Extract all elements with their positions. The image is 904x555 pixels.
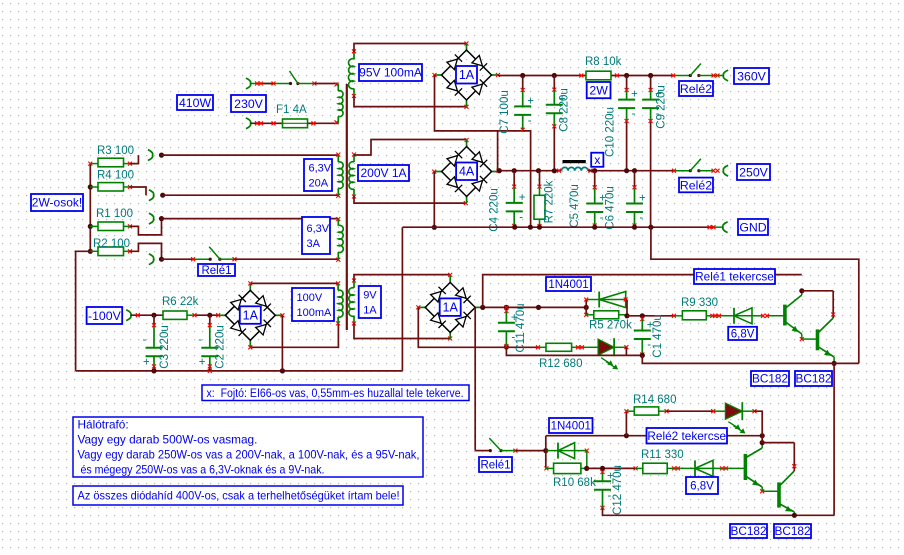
capacitor C5 470u [594,171,596,188]
svg-text:BC182: BC182 [752,372,788,386]
wire 200V top to bridge [354,140,467,156]
wire 6.3V3A bottom line [235,258,339,260]
capacitor C4 220u [513,171,515,187]
resistor R8 10k [586,71,611,80]
svg-text:Relé1 tekercse: Relé1 tekercse [695,270,774,284]
svg-text:C1 470u: C1 470u [652,314,664,357]
transformer winding 95V 100mA [353,52,355,59]
resistor R4 100 [90,186,98,188]
svg-text:BC182: BC182 [774,524,810,538]
wire zener to Q1 base [767,315,785,317]
wire fuse to primary [308,122,339,124]
svg-text:250V: 250V [739,165,769,179]
svg-text:Az összes diódahíd 400V-os, cs: Az összes diódahíd 400V-os, csak a terhe… [78,489,400,503]
wire R4 to connector [130,187,146,195]
svg-text:1A: 1A [243,308,259,322]
wire GND rail [402,226,713,228]
svg-text:Hálótrafó:: Hálótrafó: [78,418,129,432]
svg-text:F1 4A: F1 4A [276,104,307,116]
svg-text:R7 220k: R7 220k [544,180,556,223]
svg-text:Vagy egy darab 250W-os vas a 2: Vagy egy darab 250W-os vas a 200V-nak, a… [78,448,420,462]
note fojto [202,385,469,401]
wire 4A minus to GND [433,172,435,228]
label Rele1 b [479,457,512,472]
label BC182 a [751,371,789,386]
svg-text:100V: 100V [297,292,323,304]
transformer primary winding 230V [337,84,339,91]
wire mains N [251,122,283,124]
transistor Q3 BC182 [729,467,745,469]
node GND output connector [714,226,723,228]
capacitor C10 220u [626,76,628,91]
svg-text:Relé1: Relé1 [201,265,231,277]
transformer winding 6.3V 20A [337,155,339,162]
svg-text:-: - [519,211,523,223]
svg-text:R1 100: R1 100 [96,208,133,220]
label 1N4001 a [546,277,591,291]
switch S1 mains [274,83,291,85]
svg-text:6,8V: 6,8V [731,328,755,340]
svg-text:Relé2: Relé2 [680,178,712,192]
node -100V connector [126,310,131,321]
svg-text:+: + [199,356,206,368]
wire R2 to connector [130,243,162,259]
svg-text:R2 100: R2 100 [93,238,130,250]
zener diode 6.8V b [680,467,695,469]
resistor R9 330 [674,315,682,317]
wire R6 to bridge [196,314,218,316]
label x choke [591,153,603,167]
svg-text:4A: 4A [459,165,475,179]
svg-text:200V 1A: 200V 1A [360,166,406,180]
wire left GND branch [76,251,91,371]
svg-text:2W-osok!: 2W-osok! [32,196,82,210]
svg-text:R9 330: R9 330 [681,297,718,309]
label 1N4001 b [549,418,593,433]
svg-text:Relé2 tekercse: Relé2 tekercse [647,429,726,443]
capacitor C6 470u [634,171,636,188]
wire -100V to R6 [131,314,163,316]
label 360V [734,68,769,84]
svg-text:20A: 20A [309,177,329,189]
capacitor C3 220u [153,315,155,325]
svg-text:9V: 9V [363,289,377,301]
label 6.8V a [728,327,757,340]
svg-text:-: - [528,115,532,127]
wire LED2 down [755,411,763,436]
wire R1 to connector [130,219,162,235]
svg-text:C8 220u: C8 220u [559,88,571,131]
svg-text:C9 220u: C9 220u [656,85,668,128]
svg-text:-: - [640,212,644,224]
wire rele2 coil line [545,436,547,451]
LED D3 [613,338,615,356]
svg-text:1A: 1A [459,68,475,82]
label BC182 c [730,524,767,538]
svg-text:410W: 410W [179,96,212,110]
inductor choke Fojto [562,167,588,170]
wire right side return [651,227,859,363]
svg-text:230V: 230V [234,97,264,111]
transformer winding 100V 100mA [337,283,339,290]
svg-text:6,8V: 6,8V [690,481,714,493]
capacitor C1 470u [641,316,643,319]
fuse F1 4A [283,119,308,128]
svg-text:-: - [198,334,202,346]
label 6.8V b [686,477,718,494]
bridge rectifier 1A (9V) [449,276,451,283]
resistor R11 330 [636,467,643,469]
label BC182 b [795,371,832,386]
wire return to right [642,355,859,363]
svg-text:és mégegy 250W-os vas a 6,3V-o: és mégegy 250W-os vas a 6,3V-oknak és a … [78,463,325,477]
svg-text:C2 220u: C2 220u [215,325,227,368]
label -100V [87,307,123,324]
note diodahid [73,486,403,505]
svg-text:Relé2: Relé2 [680,82,712,96]
svg-text:3A: 3A [307,238,321,250]
svg-text:Vagy egy darab 500W-os vasmag.: Vagy egy darab 500W-os vasmag. [78,433,258,447]
wire rele1 coil feed [483,275,802,308]
LED D4 [713,410,725,412]
wire 9V top to bridge [354,275,450,281]
resistor R7 220k [539,171,541,187]
wire 6.3V20A top line [162,154,339,156]
svg-text:1A: 1A [443,301,459,315]
wire 9V plus rail [483,306,587,308]
wire 360V rail [498,75,674,77]
wire bottom GND rail [76,370,403,372]
resistor R14 680 [625,411,627,436]
capacitor C7 100u [522,76,524,91]
capacitor C2 220u [209,315,211,325]
bridge rectifier 1A (95V) [466,44,468,51]
wire R3 to connector [130,155,138,164]
svg-text:-: - [647,339,651,351]
svg-text:95V 100mA: 95V 100mA [359,66,422,80]
svg-text:BC182: BC182 [795,372,831,386]
svg-text:R12 680: R12 680 [539,358,582,370]
capacitor C11 470u [505,311,507,323]
resistor R12 680 [538,346,546,348]
wire LED1 down [625,347,627,355]
label Rele1 tekercse [694,269,775,284]
node 360V output connector [713,75,723,77]
label GND [738,219,768,235]
svg-text:-: - [143,334,147,346]
transistor Q2 BC182 [802,338,818,340]
capacitor C12 470u [602,472,604,481]
svg-text:-: - [632,108,636,120]
wire C12 to bottom rail [603,508,835,516]
wire R14 to LED2 [667,410,714,412]
label Rele2 b [679,178,713,193]
svg-text:-: - [600,212,604,224]
svg-text:6,3V: 6,3V [309,162,332,174]
resistor R1 100 [90,225,98,227]
svg-text:R3 100: R3 100 [97,145,134,157]
transformer winding 9V 1A [353,281,355,288]
resistor R5 270k [585,307,587,314]
wire 6.3V3A top line [162,218,339,220]
wire 200V bottom to bridge [354,196,466,203]
svg-text:2W: 2W [589,83,608,97]
wire R5 to R9 [627,315,674,317]
wire right side return 2 [833,363,835,515]
bridge rectifier 1A (100V) [249,284,251,291]
transistor Q4 BC182 [762,490,779,492]
resistor bus 2W [89,164,91,252]
svg-text:C4 220u: C4 220u [489,188,501,231]
resistor R3 100 [88,162,92,166]
label Rele1 a [198,264,235,276]
capacitor C9 220u [650,76,652,91]
wire switch to primary [298,83,315,85]
resistor R2 100 [90,250,98,252]
label Rele2 a [679,81,713,96]
svg-text:+: + [143,356,150,368]
wire 100V bottom to bridge [250,324,338,347]
wire mains L [251,83,275,85]
svg-text:+: + [519,192,526,204]
node 250V output connector [723,165,728,176]
wire 95V bottom to bridge [354,96,467,107]
node mains N connector [246,118,251,129]
svg-text:C10 220u: C10 220u [605,107,617,157]
capacitor C8 220u [553,76,555,90]
svg-text:C7 100u: C7 100u [499,90,511,133]
diode D1 1N4001 [585,300,587,308]
wire 6.3V20A bottom line [163,194,339,196]
zener diode 6.8V a [714,315,734,317]
bridge rectifier 4A (200V) [466,140,468,147]
svg-text:GND: GND [739,220,766,234]
diode D2 1N4001 [546,450,558,452]
svg-text:R14 680: R14 680 [633,394,676,406]
resistor R6 22k [163,311,187,319]
svg-text:x: Fojtó: EI66-os vas, 0,55mm: x: Fojtó: EI66-os vas, 0,55mm-es huzalla… [207,388,464,400]
note halotrafo [73,417,423,477]
switch Rele2b [674,170,690,172]
svg-text:Relé1: Relé1 [480,460,510,472]
svg-text:R11 330: R11 330 [641,449,684,461]
switch Rele2a [674,75,690,77]
wire return mid [506,347,642,355]
label 410W [177,95,213,110]
wire 9V bridge minus loop [418,307,538,347]
wire rele1 switch drop [474,307,476,450]
svg-text:-100V: -100V [88,309,122,323]
svg-text:C12 470u: C12 470u [612,465,624,515]
resistor R10 68k [545,451,547,469]
transformer winding 200V 1A [353,155,355,162]
svg-text:1N4001: 1N4001 [551,421,591,433]
svg-text:R4 100: R4 100 [97,170,134,182]
transformer winding 6.3V 3A [337,219,339,226]
svg-text:C6 470u: C6 470u [605,186,617,229]
wire C7 minus to GND [523,131,531,227]
transistor Q1 BC182 [783,305,787,326]
svg-text:+: + [639,193,646,205]
svg-text:R6 22k: R6 22k [162,296,199,308]
svg-text:C3 220u: C3 220u [159,325,171,368]
wire GND rail drop [401,227,403,371]
switch Rele1a [162,258,194,260]
label 230V [231,95,266,112]
switch Rele1b [475,450,490,452]
svg-text:x: x [594,153,601,167]
wire to diode2 node [515,450,545,452]
svg-text:R5 270k: R5 270k [589,320,632,332]
svg-text:+: + [527,95,534,107]
wire 9V bottom to bridge [354,323,450,339]
label Rele2 tekercse [647,428,728,444]
svg-text:-: - [608,490,612,502]
wire 250V rail left [499,170,562,172]
label BC182 d [774,524,811,538]
wire 100V top to bridge [250,282,338,284]
svg-text:R10 68k: R10 68k [553,477,596,489]
svg-text:C11 470u: C11 470u [515,303,527,352]
label 250V [737,164,770,180]
wire 95V bridge minus [435,75,523,131]
svg-text:100mA: 100mA [297,307,333,319]
svg-text:6,3V: 6,3V [307,223,330,235]
wire 100V bridge plus to GND rail [281,315,283,371]
wire 95V top to bridge [354,44,467,53]
wire tap to 250V rail [497,131,499,171]
svg-text:R8 10k: R8 10k [585,56,622,68]
label 2W-osok! [31,194,83,211]
svg-text:360V: 360V [737,69,767,83]
svg-text:C5 470u: C5 470u [569,184,581,227]
node mains L connector [246,78,251,89]
svg-text:1N4001: 1N4001 [548,279,588,291]
svg-text:1A: 1A [363,304,377,316]
label 2W [587,82,611,98]
wire 250V rail right [588,170,674,172]
svg-text:BC182: BC182 [730,524,766,538]
transformer core [346,84,348,330]
svg-text:+: + [631,89,638,101]
wire R10 to R11 [587,467,636,469]
